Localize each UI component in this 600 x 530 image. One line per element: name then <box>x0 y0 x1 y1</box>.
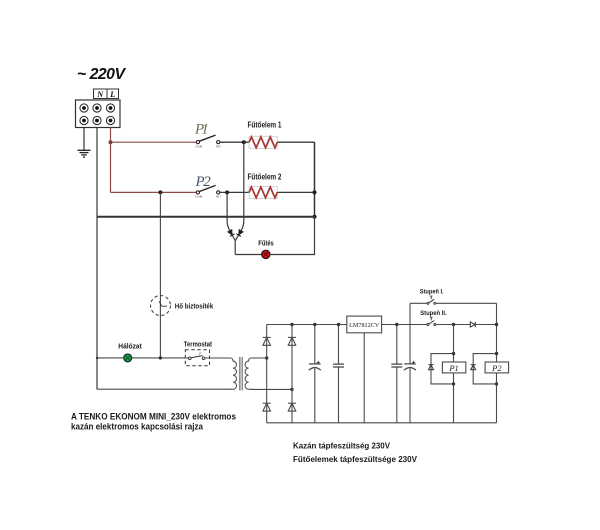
capacitor C2 <box>333 323 344 423</box>
ground <box>78 150 91 157</box>
wire DC rail right of regulator <box>382 324 427 326</box>
svg-text:Stupeň I.: Stupeň I. <box>420 289 444 296</box>
svg-text:Termostat: Termostat <box>184 340 213 349</box>
svg-text:A TENKO EKONOM MINI_230V elekt: A TENKO EKONOM MINI_230V elektromos <box>71 411 236 421</box>
wire lamp to right bus <box>270 217 314 255</box>
svg-text:Fűtőelem 2: Fűtőelem 2 <box>248 173 283 182</box>
svg-text:Fűtőelemek tápfeszültsége 230V: Fűtőelemek tápfeszültsége 230V <box>293 454 417 464</box>
wire from P2 junction down to indicator diode <box>227 192 235 240</box>
svg-text:COM: COM <box>195 144 203 148</box>
diode D1 top left <box>263 337 271 345</box>
wire L down (live, red) <box>110 128 112 193</box>
switch Stupen I <box>410 296 497 304</box>
svg-text:COM: COM <box>195 195 203 199</box>
resistor R2 Futoelem 2 <box>248 173 283 199</box>
transformer T1 <box>230 358 253 389</box>
capacitor C4 (electrolytic) <box>404 325 416 423</box>
svg-text:~ 220V: ~ 220V <box>77 66 126 83</box>
diode D7 flyback P2 <box>471 365 476 370</box>
svg-text:P2: P2 <box>491 363 502 373</box>
node junction P1/NO <box>242 140 246 144</box>
svg-text:kazán elektromos kapcsolási ra: kazán elektromos kapcsolási rajza <box>71 422 204 432</box>
relay coil P2 <box>473 352 508 386</box>
svg-text:Kazán tápfeszültség 230V: Kazán tápfeszültség 230V <box>293 440 390 450</box>
wire indicator stem <box>234 241 236 255</box>
diode D_b on right branch <box>236 229 243 236</box>
wire secondary top <box>251 357 267 359</box>
node junction P2/NO <box>225 190 229 194</box>
wire secondary bottom <box>251 388 292 390</box>
svg-text:Stupeň II.: Stupeň II. <box>420 310 447 317</box>
svg-text:L: L <box>109 89 115 99</box>
terminal label L <box>107 89 119 99</box>
switch P2 <box>195 174 222 199</box>
switch Stupen II <box>427 317 470 325</box>
wire live to P2 COM <box>111 191 197 193</box>
svg-text:Fűtés: Fűtés <box>258 239 274 248</box>
wire to lamp <box>235 254 262 256</box>
svg-text:Fűtőelem 1: Fűtőelem 1 <box>248 120 283 129</box>
diode D6 flyback P1 <box>428 365 433 370</box>
wire Stupen I right drop <box>496 303 498 423</box>
wire from P1 junction down to indicator diode <box>235 142 244 240</box>
transformer core <box>239 357 242 390</box>
diode D5 series <box>470 322 475 327</box>
lamp Futes (red) <box>258 239 274 259</box>
wire neutral bottom rail <box>97 216 315 218</box>
wire earth lead <box>83 128 85 151</box>
capacitor C1 (electrolytic) <box>309 323 321 423</box>
node lamp join <box>312 215 316 219</box>
terminal label N <box>94 89 108 99</box>
wire P2 NO to R2 <box>220 191 249 193</box>
wire DC top rail left of regulator <box>267 324 347 326</box>
svg-text:Hő biztosíték: Hő biztosíték <box>175 302 214 311</box>
wire live to P1 COM <box>111 141 197 143</box>
node P1 branch <box>452 323 455 326</box>
node R2 join <box>312 190 316 194</box>
diode D_a on left branch <box>228 229 235 236</box>
thermal fuse Ho biztositek <box>151 296 214 316</box>
regulator U1 LM7812CV <box>347 316 382 423</box>
resistor R1 Futoelem 1 <box>248 120 283 148</box>
diode D3 bottom left <box>263 403 271 411</box>
node rail/bridge right <box>290 323 293 326</box>
switch P1 <box>194 121 221 148</box>
wire P1 coil drop <box>453 325 455 423</box>
wire R2 right <box>277 191 314 193</box>
wire diode to right corner <box>475 324 496 326</box>
svg-text:Hálózat: Hálózat <box>118 342 142 351</box>
node tap for thermal fuse <box>158 190 162 194</box>
relay coil P1 <box>431 352 466 386</box>
wire bridge right vertical <box>291 325 293 423</box>
lamp Halozat (green) <box>96 342 189 362</box>
wire bridge left vertical <box>266 325 268 423</box>
thermostat <box>184 340 231 366</box>
wire branch up to Stupen I <box>409 303 411 324</box>
wire mains bottom <box>97 388 231 390</box>
svg-text:LM7812CV: LM7812CV <box>349 322 380 329</box>
svg-text:NO: NO <box>215 195 221 199</box>
wire P1 NO to R1 <box>220 141 249 143</box>
svg-text:N: N <box>96 89 104 99</box>
svg-text:NO: NO <box>215 144 221 148</box>
diode D2 top right <box>288 337 296 345</box>
capacitor C3 <box>391 323 402 423</box>
thermal fuse lead <box>159 192 161 358</box>
svg-text:P1: P1 <box>194 121 209 137</box>
wire DC bottom rail <box>267 422 497 424</box>
terminal block TB1 <box>76 100 121 128</box>
node live junction <box>109 140 113 144</box>
wire R1 right <box>277 141 314 143</box>
wire N down to bottom rail and on to mains section <box>96 128 98 390</box>
wire right vertical bus <box>314 142 316 217</box>
svg-text:P1: P1 <box>448 363 458 373</box>
diode D4 bottom right <box>288 403 296 411</box>
